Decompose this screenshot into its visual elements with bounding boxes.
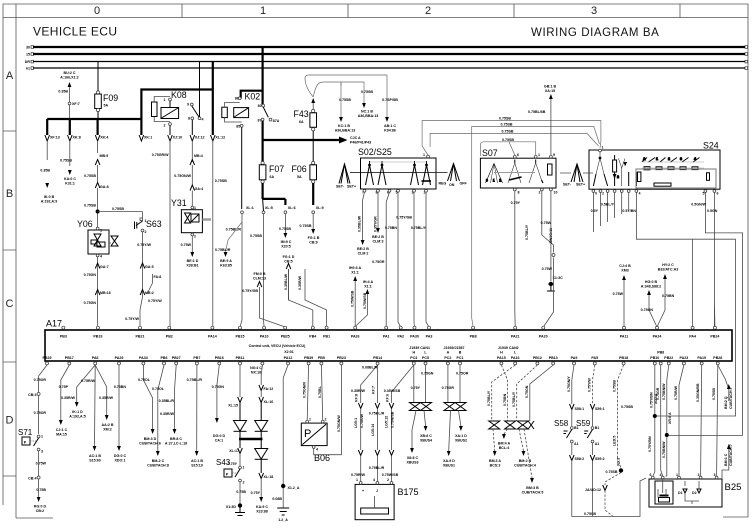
svg-text:1: 1 [309,418,311,422]
wire S63 to PB21 [125,232,162,327]
svg-text:XK:1: XK:1 [144,136,152,140]
svg-text:IK:0 B: IK:0 B [44,195,55,199]
svg-text:4: 4 [639,192,641,196]
svg-text:PA14: PA14 [208,335,217,339]
svg-text:0.75SB: 0.75SB [502,129,514,133]
svg-text:PB1: PB1 [323,335,330,339]
svg-text:A17: A17 [46,319,62,329]
svg-text:A36,BBA:13: A36,BBA:13 [335,129,356,133]
wire bowtie2 out XBUS2 [455,411,467,443]
svg-text:0.75Y/GB: 0.75Y/GB [396,216,412,220]
svg-text:0.75BN/W: 0.75BN/W [662,441,666,458]
svg-text:PB29: PB29 [43,356,52,360]
S02 left triangle SET [336,164,356,189]
svg-text:S63: S63 [146,219,162,229]
svg-text:0.75SB: 0.75SB [60,159,72,163]
svg-text:MA:15: MA:15 [56,433,67,437]
svg-text:X1:3D: X1:3D [226,505,237,509]
wire bowtie3 out BM:3A [489,429,501,468]
pressure sensor B06 [301,418,330,464]
svg-text:0.75GN/W: 0.75GN/W [174,174,191,178]
svg-text:BM:3 B: BM:3 B [526,486,539,490]
svg-text:0.35R/W: 0.35R/W [160,412,175,416]
wire PB13 to bowtie5 [525,365,553,421]
wire S24 pin6 drop 0.5GN to PB24 [707,193,718,328]
S24 switch row A 1 2 3 4 [642,157,704,170]
wire bowtie2 out XBUS1 [443,411,455,468]
svg-text:KA:0 C: KA:0 C [64,177,76,181]
svg-text:S59:2: S59:2 [595,457,605,461]
svg-text:2: 2 [539,191,541,195]
svg-text:PB5: PB5 [318,356,325,360]
svg-text:1: 1 [676,473,678,477]
pin PC4 (A17 bottom) [410,351,417,365]
svg-text:A: A [643,157,646,161]
svg-text:10: 10 [554,191,558,195]
svg-text:PB15: PB15 [236,335,245,339]
svg-text:LED:5: LED:5 [613,436,617,446]
pin PA12 (A17 bottom) [284,356,293,365]
svg-text:0.75SB: 0.75SB [215,179,227,183]
svg-text:0.75SB: 0.75SB [250,234,262,238]
wire PB22 to B25 [662,365,672,476]
svg-text:6A: 6A [270,175,275,179]
svg-text:0.75OR: 0.75OR [34,378,47,382]
wire S58 down [570,443,647,517]
svg-text:0.75OL: 0.75OL [152,387,165,391]
pin PB25 (A17 top) [281,326,290,338]
wire J/WJC:11 column [542,228,555,327]
wire drop DR to XL:12 [212,62,214,136]
svg-text:0.75R/W: 0.75R/W [351,473,366,477]
pin PB3 (A17 top) [60,326,67,338]
wire K02-85 down to XL:1 [241,127,243,209]
connector XL:12 [211,135,228,327]
svg-text:B: B [6,188,13,200]
svg-text:MB:2: MB:2 [145,291,154,295]
svg-text:XL:17: XL:17 [229,449,239,453]
pin PA29 (A17 bottom) [115,356,124,365]
svg-text:CLM 2: CLM 2 [358,252,369,256]
svg-text:PB8: PB8 [470,335,477,339]
node rail CJC A arrow [263,136,372,145]
svg-text:DR: DR [25,60,31,64]
pin PC2 (A17 bottom) [444,351,451,365]
svg-text:0.75OR: 0.75OR [34,411,47,415]
svg-text:0.08BL/R: 0.08BL/R [362,366,378,370]
pin PA19 (A17 bottom) [697,356,706,365]
pin PA20 (A17 top) [539,326,548,338]
switch S43 [216,458,245,485]
wire PA6 branch IK:1D [61,365,95,419]
svg-text:2: 2 [499,179,501,183]
svg-text:S07: S07 [482,148,498,158]
svg-text:FA:8: FA:8 [154,275,162,279]
svg-text:0.75SB: 0.75SB [584,512,596,516]
wire S71 to ground ref [28,451,46,513]
ecu body B25 [649,473,741,507]
svg-text:0.75SB: 0.75SB [300,224,312,228]
svg-text:87A: 87A [273,119,280,123]
svg-text:BCS:3: BCS:3 [490,464,501,468]
svg-text:0.75BL/Y: 0.75BL/Y [411,226,427,230]
wire drop 30 to K02 [262,47,264,105]
svg-text:PB19: PB19 [93,335,102,339]
svg-text:FM:0 B: FM:0 B [254,272,266,276]
svg-text:KF:7: KF:7 [371,386,375,394]
svg-text:AC:1 B: AC:1 B [89,454,101,458]
svg-text:PC5: PC5 [422,356,429,360]
svg-text:A36,BBA:13: A36,BBA:13 [358,114,379,118]
bus DR [25,60,748,64]
svg-text:CB:3: CB:3 [28,393,36,397]
solenoid valve Y31 [171,198,211,239]
svg-text:2: 2 [325,418,327,422]
svg-text:0.75GN: 0.75GN [84,301,97,305]
S02 internals contacts [350,161,448,185]
node LED dot [585,458,623,517]
svg-text:0.75B: 0.75B [236,490,246,494]
svg-text:0.75GR: 0.75GR [372,260,385,264]
svg-text:J1939 CAN2: J1939 CAN2 [498,346,519,350]
svg-text:B175: B175 [398,487,419,497]
svg-text:X8:8 C: X8:8 C [407,456,419,460]
svg-text:SET+: SET+ [576,183,585,187]
wire PB12 dashed to bowtie4 [512,365,538,421]
svg-text:NX:4 C: NX:4 C [250,366,262,370]
svg-text:9: 9 [187,103,189,107]
wire PA4 riser [693,239,729,401]
svg-text:PA24: PA24 [653,335,662,339]
svg-text:PC1: PC1 [457,356,464,360]
svg-text:A: A [447,351,450,355]
svg-text:A:192,A:9: A:192,A:9 [41,200,58,204]
wire bar to S43 [228,439,243,466]
svg-text:PA15: PA15 [497,356,506,360]
splice bowtie X1 (XBUS) [410,365,434,411]
svg-text:9: 9 [553,153,555,157]
svg-text:0.75W: 0.75W [36,462,47,466]
pin PA30 (A17 top) [410,326,419,338]
svg-text:2: 2 [164,124,166,128]
svg-text:S15:19: S15:19 [191,464,203,468]
ref BM:2Q CUB/TACH:7 (right edge) [724,384,733,409]
svg-text:0.75P: 0.75P [59,385,69,389]
svg-text:S58:2: S58:2 [575,457,585,461]
wire S43 to ground X1:3D [226,482,247,516]
svg-text:XJ:10: XJ:10 [173,136,183,140]
wire F07 below to XL:5 / XL:6 [262,183,295,214]
svg-text:BE:1 D: BE:1 D [187,259,199,263]
svg-text:6: 6 [717,192,719,196]
svg-text:BR:8 C: BR:8 C [170,437,182,441]
svg-text:XA:15: XA:15 [545,89,555,93]
svg-text:XK:8: XK:8 [73,136,81,140]
svg-text:0.75GN/Y: 0.75GN/Y [567,376,571,392]
svg-text:S43: S43 [216,458,231,467]
wire PB7 arrow AC:1B [187,365,204,468]
wire 0.75SB arrow NC:1B second [358,82,379,118]
connector XF:13 [45,135,60,160]
svg-text:0.75SB: 0.75SB [501,123,513,127]
wire S07 pin8 to PA21 [511,191,521,327]
svg-text:A:27,LC-L:18: A:27,LC-L:18 [165,442,187,446]
connector XL:18 [251,473,274,514]
svg-text:PA20: PA20 [539,335,548,339]
svg-text:CB:4: CB:4 [28,477,36,481]
fuse F09 [95,91,119,119]
solenoid valve Y06 [77,219,118,259]
wire col Y06 feed [84,154,109,227]
svg-text:0.75OR: 0.75OR [456,372,469,376]
svg-text:PA5: PA5 [591,356,598,360]
wire F06 below to XL:9 [312,183,324,214]
svg-text:GA:4: GA:4 [195,187,204,191]
svg-text:IK:1 D: IK:1 D [72,410,83,414]
wire XL:5 to PA10 [250,214,264,327]
connector XJ:10 [168,135,182,327]
bus 15 [26,53,748,57]
svg-text:0.75BN: 0.75BN [385,226,398,230]
pin PA24 (A17 top) [653,326,662,338]
svg-text:2: 2 [387,478,389,482]
svg-text:0.75W: 0.75W [542,267,553,271]
svg-text:XD:1: XD:1 [616,458,620,466]
svg-text:0.75Y/GB: 0.75Y/GB [242,289,258,293]
svg-text:IH:4 A: IH:4 A [363,280,374,284]
svg-text:NC:1 B: NC:1 B [361,110,373,114]
wire PB27 arrow BR:8C [159,365,187,446]
pin PC1 (A17 bottom) [457,351,464,365]
svg-text:0.75SB: 0.75SB [279,227,291,231]
wire 0.75SB arrow NC:1B [335,82,356,133]
svg-text:0.75GN: 0.75GN [421,372,434,376]
svg-text:B1: B1 [595,426,600,430]
S07 bottom pins [513,188,557,194]
svg-text:0.75W: 0.75W [541,221,552,225]
svg-text:PB3: PB3 [60,335,67,339]
svg-text:0.75W: 0.75W [613,292,624,296]
svg-text:PA2: PA2 [397,335,404,339]
svg-text:PA10: PA10 [260,335,269,339]
svg-text:PA6: PA6 [92,356,99,360]
svg-text:XF:7: XF:7 [72,102,80,106]
fuse F06 [292,161,317,183]
svg-text:BE:2 B: BE:2 B [372,235,384,239]
svg-text:5A: 5A [104,104,109,108]
wire S02 pin8 0.35Y/GR [372,192,384,243]
fuse F43 [294,98,317,162]
wire rail drops [47,119,141,135]
svg-text:P46/P41/P43: P46/P41/P43 [350,141,371,145]
svg-text:0.35BL/W: 0.35BL/W [284,273,288,290]
svg-text:PB7: PB7 [193,356,200,360]
connector XK:4 [95,135,108,153]
svg-text:8: 8 [518,191,520,195]
svg-text:5A: 5A [297,175,302,179]
pin PA11 (A17 top) [620,326,629,338]
wire XL:9 to PB4 [300,214,320,245]
svg-text:3: 3 [714,473,716,477]
svg-text:0.35R/W: 0.35R/W [351,389,366,393]
svg-text:B: B [459,351,462,355]
accel sensor B175 box [355,478,418,520]
pin PB16 (A17 bottom) [215,356,224,365]
pin PA33 (A17 bottom) [139,356,148,365]
wire PA6 branch AA:2B [95,365,114,432]
svg-text:X23:88: X23:88 [256,510,268,514]
svg-text:0.5GN/W: 0.5GN/W [691,203,706,207]
svg-text:2: 2 [602,192,604,196]
svg-text:+: + [362,489,364,493]
pin PB13 (A17 bottom) [549,356,558,365]
pin PA9 (A17 bottom) [571,356,578,365]
wire S24 pin0 drop 0.5Y [591,193,599,233]
pin PA14 (A17 top) [208,326,217,338]
pin PB21 (A17 top) [136,326,145,338]
wire PB4 col FG:1D [283,255,327,327]
svg-text:F43: F43 [294,109,309,119]
S02 bottom pins [362,189,427,194]
wire bowtie3 out BM:4A [498,429,511,450]
svg-text:B32/ATC:A3: B32/ATC:A3 [658,268,679,272]
svg-text:XL:9: XL:9 [316,206,324,210]
svg-text:15: 15 [26,53,30,57]
pin PA23 (A17 bottom) [680,356,689,365]
svg-text:0.75BL/Y: 0.75BL/Y [512,391,516,407]
splice bowtie X2 (XBUS) [442,365,469,411]
svg-text:A:166,X1:2: A:166,X1:2 [60,76,78,80]
svg-text:A:348,S88:2: A:348,S88:2 [641,285,661,289]
svg-text:FG:1 B: FG:1 B [308,236,320,240]
wire Y06 to PB19 [84,257,111,327]
pin PB39 (A17 bottom) [304,356,313,365]
svg-text:1: 1 [493,179,495,183]
pin PA10 (A17 top) [260,326,269,338]
svg-text:PB12: PB12 [533,356,542,360]
pin PA2 (A17 top) [397,326,404,338]
diode V2 [255,421,268,440]
wire 0.75BL/Y label [525,224,529,240]
svg-text:LG5:14: LG5:14 [371,424,375,436]
svg-text:XL:12: XL:12 [215,136,225,140]
svg-text:0.75Y/W: 0.75Y/W [148,299,162,303]
svg-text:0.75SB: 0.75SB [613,380,617,392]
pin PB19 (A17 top) [93,326,102,338]
svg-text:0.75GN: 0.75GN [212,385,225,389]
pin PA21 (A17 top) [511,326,520,338]
svg-text:0.75BN/W: 0.75BN/W [662,383,666,400]
wire PB10 to B25 [648,365,658,476]
svg-text:XL:18: XL:18 [264,475,274,479]
svg-text:PA19: PA19 [697,356,706,360]
svg-text:3: 3 [680,157,682,161]
pin PA5 (A17 bottom) [591,356,598,365]
wire PA15 dashed to bowtie3 [501,365,507,421]
wire BU:2C branch up-arrow [58,71,78,119]
S24 internals [593,152,636,186]
wire 0.75SB feed line3 [430,129,598,147]
svg-text:Y06: Y06 [77,219,93,229]
svg-text:BE:9 A: BE:9 A [220,259,232,263]
svg-text:2: 2 [617,175,619,179]
svg-text:BM-2 C: BM-2 C [152,459,165,463]
svg-text:SET+: SET+ [347,185,356,189]
svg-text:KA:9 C: KA:9 C [256,505,268,509]
svg-text:0.75BL/R: 0.75BL/R [187,378,203,382]
svg-text:0.35R/W: 0.35R/W [61,396,76,400]
switch S58 [554,419,579,446]
svg-text:0.75GN/W: 0.75GN/W [337,415,341,432]
switch S59 [576,419,599,446]
svg-text:CLM:3: CLM:3 [373,240,384,244]
svg-text:J1939/J1587: J1939/J1587 [444,346,465,350]
svg-text:XK:4: XK:4 [100,136,108,140]
svg-text:S59:1: S59:1 [595,407,605,411]
svg-text:S24: S24 [703,141,719,151]
svg-text:0.75SB: 0.75SB [112,207,124,211]
wire CJ:4B XM3 to PA11 [613,264,631,327]
pin PB12 (A17 bottom) [533,356,542,365]
svg-text:LG5:12: LG5:12 [385,416,389,428]
S24 inner sub box [636,169,716,188]
pin PB8 (A17 top) [470,326,477,338]
svg-text:0.35B: 0.35B [58,90,68,94]
svg-text:FG:1 D: FG:1 D [283,255,295,259]
wire PA9 to S58 [567,365,584,426]
svg-text:0.75BL/R: 0.75BL/R [215,248,231,252]
svg-text:REG: REG [439,182,447,186]
pin PB5 (A17 bottom) [318,356,325,365]
svg-text:JA/UD:12: JA/UD:12 [585,488,601,492]
S02 right triangle REG [436,164,467,188]
svg-text:WIRING DIAGRAM BA: WIRING DIAGRAM BA [531,27,659,39]
wire S02 pin7 0.35BL/W [357,192,369,255]
svg-text:PB10: PB10 [650,356,659,360]
S24 left triangle SET [560,164,593,187]
wire S02 pin6 to PA1 [386,192,389,327]
left ruler strip [3,18,16,519]
svg-text:PC4: PC4 [410,356,417,360]
svg-text:S59: S59 [576,419,591,428]
wire PB14 to B175 pin4 [369,365,385,482]
svg-text:0.75BN: 0.75BN [503,393,507,406]
svg-text:CA:1: CA:1 [215,439,223,443]
wire PA5 to S59 [588,365,605,426]
wire 0.75P/SB arrow AB:1C [382,75,398,133]
svg-text:CLM:13: CLM:13 [253,277,266,281]
wire Y31 down arrow BE:1D [181,236,199,268]
diode V1 [234,421,247,440]
svg-text:CJ:4 B: CJ:4 B [619,264,631,268]
pin PB14 (A17 bottom) [373,356,382,365]
svg-text:PA21: PA21 [511,335,520,339]
svg-text:SET-: SET- [336,185,345,189]
pin PB11 (A17 bottom) [236,356,245,365]
wire col XK:8 arrow KA:0C [60,159,76,186]
top ruler strip [3,4,748,18]
svg-text:0: 0 [486,179,488,183]
svg-text:XL:5: XL:5 [265,206,273,210]
svg-text:PA12: PA12 [284,356,293,360]
svg-text:0.75Y/W: 0.75Y/W [588,378,592,392]
svg-text:4: 4 [316,448,318,452]
svg-text:PB6: PB6 [161,356,168,360]
pin PC5 (A17 bottom) [422,351,429,365]
svg-text:X1:3C: X1:3C [553,276,564,280]
svg-text:XA-9 D: XA-9 D [443,459,455,463]
svg-text:X2:01: X2:01 [284,350,294,354]
